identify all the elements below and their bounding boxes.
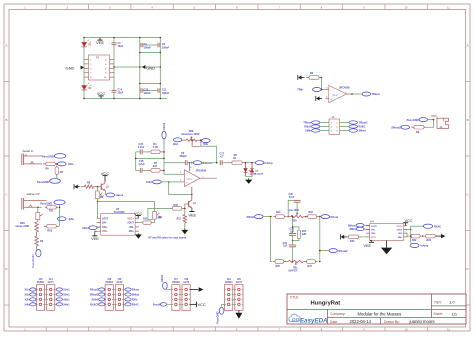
svg-text:1uF: 1uF	[283, 245, 288, 248]
svg-text:LL4148: LL4148	[255, 173, 263, 176]
trimmer R8b pot	[153, 212, 163, 220]
junction Q1 base	[97, 186, 99, 188]
svg-text:100nF: 100nF	[162, 92, 170, 95]
wire R5 to TRIn node	[322, 78, 326, 90]
resistor R8 zigzag	[81, 181, 98, 188]
wire minus input	[164, 173, 180, 175]
svg-text:X1In: X1In	[68, 162, 74, 166]
svg-text:R16: R16	[309, 211, 314, 214]
svg-text:Drawn By:: Drawn By:	[384, 320, 400, 324]
svg-text:R14: R14	[276, 211, 281, 214]
svg-text:1K: 1K	[233, 157, 236, 160]
wire left vertical	[83, 38, 85, 99]
svg-text:VEE: VEE	[363, 244, 371, 248]
wire starve node	[59, 204, 61, 226]
svg-text:1.0: 1.0	[449, 300, 455, 305]
svg-text:Modular for the Masses: Modular for the Masses	[358, 312, 402, 317]
wire ladder right vertical	[163, 152, 165, 174]
svg-text:2OUT: 2OUT	[127, 222, 134, 225]
connector J19	[225, 279, 233, 310]
svg-text:U1.1: U1.1	[187, 178, 193, 181]
junction out jack	[433, 119, 435, 121]
junction U5 rail	[97, 201, 99, 203]
svg-text:PASS4: PASS4	[225, 281, 233, 284]
svg-text:VCC-: VCC-	[371, 237, 377, 239]
junction X1In	[56, 163, 58, 165]
capacitor C2	[141, 43, 151, 50]
svg-text:VCC: VCC	[198, 302, 207, 307]
resistor R3 vertical	[55, 165, 64, 176]
svg-text:100nF: 100nF	[144, 92, 152, 95]
svg-text:R12: R12	[177, 217, 182, 220]
wire U1.2 output	[349, 93, 363, 95]
wire R28 wiper box	[191, 139, 201, 146]
wire wiper to feedback	[201, 146, 217, 162]
wire U5 left pin1	[97, 202, 99, 219]
net flag InAmp at U4	[410, 243, 429, 247]
resistor R29	[15, 220, 38, 233]
svg-text:tone 100K: tone 100K	[288, 209, 300, 212]
svg-text:R23: R23	[427, 239, 432, 242]
svg-text:RXIn2: RXIn2	[359, 126, 366, 129]
capacitor C6	[180, 152, 188, 165]
connector J18	[182, 279, 190, 310]
svg-text:RXIn2: RXIn2	[304, 126, 311, 129]
wires between J17 J18	[180, 290, 182, 305]
resistor R25	[273, 260, 286, 268]
ic U4	[366, 221, 408, 241]
junction starve pot	[37, 207, 39, 209]
svg-text:R13: R13	[143, 218, 148, 221]
company text	[330, 312, 401, 317]
svg-text:1M POT: 1M POT	[288, 270, 297, 273]
svg-text:-: -	[330, 88, 331, 92]
gnd below diodes	[245, 176, 252, 183]
gnd below R12	[181, 223, 188, 234]
connector J17	[172, 279, 180, 310]
net flag RXIn2 at J2	[304, 125, 320, 129]
LED D2	[82, 83, 92, 90]
svg-text:VCC: VCC	[97, 91, 106, 96]
net flag PassGND audio in	[42, 154, 66, 159]
wire to R22	[404, 233, 410, 236]
capacitor C14	[109, 89, 124, 95]
net flag starve	[105, 191, 123, 198]
svg-text:GND: GND	[66, 66, 75, 71]
resistor R9	[412, 125, 427, 133]
svg-text:X1In: X1In	[25, 289, 31, 292]
svg-text:Audio in: Audio in	[23, 149, 34, 153]
svg-text:RXIn2: RXIn2	[247, 215, 255, 219]
svg-text:47nF: 47nF	[289, 196, 295, 199]
svg-text:distortion 100K: distortion 100K	[181, 133, 199, 136]
wires between J19 J20	[233, 290, 235, 305]
connector J15	[105, 279, 113, 310]
transistor Q2	[185, 194, 197, 208]
svg-text:X3o1: X3o1	[173, 143, 179, 146]
wire mid branch 2	[292, 235, 294, 245]
resistor R5	[306, 72, 322, 79]
net flags left of J13	[25, 288, 36, 307]
power flag VCC at U5	[134, 212, 142, 219]
sheet text	[434, 311, 458, 316]
svg-text:10uF: 10uF	[118, 92, 124, 95]
svg-text:PassGND: PassGND	[216, 312, 220, 324]
junction D4	[251, 162, 253, 164]
gnd flag left of P1	[66, 66, 85, 71]
svg-text:RXout2: RXout2	[339, 249, 349, 253]
svg-text:HungryRat: HungryRat	[311, 300, 341, 306]
net flag RXIn2 tone	[247, 215, 263, 219]
capacitor C20	[288, 193, 300, 216]
svg-text:ACT4: ACT4	[236, 281, 243, 284]
junction U4 out	[410, 229, 412, 231]
op-amp U1.1	[180, 162, 217, 187]
wire tone input	[263, 216, 272, 218]
junction starve node	[59, 207, 61, 209]
power flag VCC	[100, 96, 102, 99]
junction ladder	[135, 151, 165, 171]
svg-text:SMout: SMout	[348, 224, 356, 227]
gnd arrow at R8	[77, 186, 80, 188]
resistor R6	[43, 162, 58, 170]
title text	[290, 295, 341, 306]
junction TRIn	[321, 77, 323, 91]
date text	[330, 319, 436, 324]
pot R30 tone	[288, 209, 306, 223]
capacitor C11	[158, 88, 170, 95]
svg-text:RXIn: RXIn	[132, 299, 138, 302]
svg-text:2IN-: 2IN-	[129, 226, 134, 229]
connector J14	[47, 278, 55, 310]
wire mid branch 3	[292, 247, 294, 262]
gnd arrow at U1.2 plus input	[319, 98, 322, 100]
svg-text:+: +	[186, 180, 188, 184]
resistor R4	[146, 143, 164, 154]
svg-text:starve CV: starve CV	[27, 192, 40, 196]
svg-text:PassGND: PassGND	[407, 118, 419, 122]
net flag TRIout at J2	[303, 121, 320, 125]
resistor R10	[148, 204, 184, 220]
resistor R26	[44, 225, 59, 233]
svg-text:X3In1: X3In1	[63, 299, 70, 302]
power flag VCC at Q1	[101, 171, 110, 182]
svg-text:X2In1: X2In1	[160, 274, 164, 282]
net flag PassGND vertical at J19	[216, 304, 225, 323]
svg-text:starve: starve	[116, 193, 124, 197]
power flag VEE at U5	[91, 231, 99, 241]
capacitor C17	[219, 152, 224, 165]
net flag SMout2 out	[391, 125, 409, 129]
svg-text:juanito moore: juanito moore	[409, 319, 436, 324]
svg-text:2IN+: 2IN+	[398, 237, 403, 239]
svg-text:R10: R10	[174, 204, 179, 207]
wire U4 out node	[404, 229, 411, 231]
power flag VCC at U4	[403, 219, 413, 226]
svg-text:100nF: 100nF	[144, 46, 152, 49]
svg-text:1uF: 1uF	[290, 231, 295, 234]
net flag PassGND starve	[40, 200, 65, 205]
resistor R6b	[222, 154, 245, 164]
svg-text:RXAC: RXAC	[434, 226, 441, 229]
svg-text:R30: R30	[292, 220, 297, 223]
resistor R12 zigzag	[177, 215, 187, 224]
svg-text:Date:: Date:	[330, 320, 338, 324]
svg-text:R11: R11	[49, 210, 54, 213]
svg-text:R24: R24	[350, 240, 355, 243]
svg-text:PassGND: PassGND	[42, 155, 54, 159]
trimmer R7 pot	[96, 187, 105, 200]
connector J20	[235, 279, 243, 310]
svg-text:SMout: SMout	[359, 130, 367, 133]
svg-text:TRIout2: TRIout2	[359, 122, 369, 125]
net flag RXout tone	[321, 215, 338, 219]
op-amp U1.2	[326, 85, 351, 102]
svg-text:TITLE:: TITLE:	[290, 295, 300, 299]
wires between J13 J14	[45, 290, 47, 305]
net flags left of J15	[90, 288, 105, 307]
net flag TRIout	[362, 92, 380, 96]
net flag distort	[187, 161, 217, 165]
audio jack J11	[437, 117, 449, 129]
junction D3	[245, 162, 247, 164]
wire ladder mid	[136, 157, 164, 159]
svg-text:1IN+: 1IN+	[371, 233, 376, 235]
resistor R11	[38, 206, 58, 213]
svg-text:InAmp: InAmp	[265, 161, 273, 165]
net flag X2In1 vertical at J17	[160, 274, 172, 289]
svg-text:2IN-: 2IN-	[398, 233, 402, 235]
capacitor C1	[109, 42, 124, 48]
rev text	[435, 300, 456, 305]
svg-text:50K: 50K	[158, 216, 163, 219]
wire ladder left vertical	[135, 152, 137, 171]
resistor R16	[306, 211, 319, 218]
junction tone a	[287, 216, 289, 218]
diode D3	[244, 163, 257, 177]
svg-text:+: +	[330, 97, 332, 101]
gnd arrow at R5	[301, 77, 305, 79]
net flag InAmp	[255, 161, 273, 165]
wire Q2 collector rail	[169, 182, 192, 195]
svg-text:Company:: Company:	[330, 312, 346, 316]
svg-text:B: B	[467, 118, 469, 122]
connector J16	[115, 279, 123, 310]
audio input jack J1	[22, 154, 42, 166]
capacitor C18	[136, 160, 147, 173]
net flag X5In	[202, 139, 211, 147]
trimmer R12	[36, 207, 43, 219]
capacitor C22	[283, 242, 297, 248]
svg-text:InAmp: InAmp	[421, 245, 429, 248]
wire VEE top rail	[84, 37, 160, 39]
resistor R2 vertical lower	[35, 232, 44, 246]
wires J2 right	[340, 123, 350, 131]
svg-text:240: 240	[153, 165, 158, 168]
net flag RXIn2 right	[349, 125, 366, 129]
svg-text:X2In: X2In	[25, 294, 31, 297]
svg-text:X4In: X4In	[25, 304, 31, 307]
capacitor C21	[289, 228, 296, 236]
svg-text:ACT1: ACT1	[48, 281, 55, 284]
easyeda logo	[289, 314, 328, 324]
wire to InAmp	[410, 230, 412, 244]
svg-text:SMout: SMout	[132, 294, 140, 297]
wire VCC bottom rail	[84, 98, 167, 100]
svg-text:R22: R22	[412, 239, 417, 242]
wires J2 left	[320, 123, 329, 131]
junction bottom mid	[292, 261, 294, 263]
gnd arrow at R24	[344, 236, 347, 238]
gnd flag right rail	[142, 65, 155, 70]
svg-text:X4In1: X4In1	[63, 304, 70, 307]
svg-text:JRC4558: JRC4558	[339, 86, 350, 89]
svg-text:VCC+: VCC+	[396, 226, 403, 228]
svg-text:RXAC: RXAC	[132, 304, 139, 307]
svg-text:10uF: 10uF	[118, 45, 124, 48]
net flags right of J16	[124, 288, 140, 307]
net flag TRIn	[297, 88, 321, 92]
wires between J15 J16	[113, 290, 115, 305]
junction tone right	[319, 216, 321, 218]
svg-text:VEE: VEE	[188, 213, 196, 217]
resistor R24	[346, 235, 366, 243]
svg-text:TRIout: TRIout	[372, 92, 380, 96]
gnd arrow right of R23	[436, 234, 445, 238]
gnd below J20	[235, 310, 242, 319]
svg-text:X2In1: X2In1	[63, 294, 70, 297]
svg-text:RXout: RXout	[132, 289, 139, 292]
junction plus input drop	[168, 181, 170, 183]
wire diode row	[246, 162, 256, 164]
svg-text:2022-04-14: 2022-04-14	[350, 319, 372, 324]
wire C1 column	[113, 38, 115, 99]
pot R31	[285, 260, 306, 272]
wire tone left vertical	[271, 217, 273, 262]
title block	[287, 294, 466, 324]
svg-text:JRC4558: JRC4558	[196, 169, 207, 172]
net flag SMIn at U4	[350, 227, 370, 231]
wire R9 to jack	[427, 120, 434, 128]
net flag SMout at J2	[349, 129, 366, 133]
svg-text:ACT3: ACT3	[183, 281, 190, 284]
svg-text:1IN-: 1IN-	[371, 230, 375, 232]
junction mid branch	[292, 216, 294, 218]
wire Q2 base node	[184, 204, 186, 215]
power flag VEE	[99, 38, 101, 41]
junction distort	[191, 162, 193, 164]
svg-text:X1In1: X1In1	[63, 289, 70, 292]
svg-text:330pF: 330pF	[180, 155, 188, 158]
wire tone right vertical	[319, 217, 321, 262]
wire GND mid rail	[114, 66, 161, 68]
svg-text:X3In: X3In	[25, 299, 31, 302]
junction output node	[216, 162, 218, 164]
wire feedback row	[164, 162, 185, 164]
junction Q2 base node	[184, 208, 186, 210]
svg-text:PassGND: PassGND	[37, 180, 49, 184]
svg-text:X1In1: X1In1	[162, 122, 166, 130]
net flag PassGND out	[407, 118, 428, 123]
net flag PassGND vertical	[31, 246, 41, 268]
svg-text:PASS2: PASS2	[106, 281, 114, 284]
svg-text:A: A	[5, 44, 7, 48]
net flag X3o1	[173, 138, 182, 146]
svg-text:-: -	[186, 173, 187, 177]
wire C10 C11 loop	[140, 67, 161, 99]
svg-text:R26: R26	[48, 229, 53, 232]
svg-text:PassN: PassN	[153, 304, 161, 307]
svg-text:REV:: REV:	[435, 300, 443, 304]
svg-text:VCC: VCC	[101, 171, 110, 176]
svg-text:X2In1: X2In1	[82, 227, 89, 230]
svg-text:starve 100K: starve 100K	[15, 225, 29, 228]
svg-text:X5In: X5In	[203, 143, 209, 146]
wire PassGND to jack	[428, 119, 434, 121]
svg-text:Sheet:: Sheet:	[434, 312, 444, 316]
junction bottom right	[319, 261, 321, 263]
wire tone mid branch	[292, 217, 294, 234]
svg-text:PASS3: PASS3	[172, 281, 180, 284]
svg-text:X1In1: X1In1	[146, 181, 153, 184]
svg-text:RXIn2: RXIn2	[92, 299, 99, 302]
junction Q2 collector	[191, 194, 193, 196]
svg-text:4.7uF: 4.7uF	[138, 163, 145, 166]
net flag RXout2	[319, 249, 348, 253]
svg-text:VCC+: VCC+	[127, 217, 134, 220]
svg-text:U1.2: U1.2	[333, 94, 339, 97]
resistor R7b	[146, 162, 164, 172]
ic U5	[97, 208, 139, 235]
resistor R23	[424, 234, 436, 242]
net flag X2In1 at U5	[82, 226, 100, 230]
svg-text:ACT2: ACT2	[116, 281, 123, 284]
svg-text:SMIn: SMIn	[305, 130, 311, 133]
svg-text:RXout: RXout	[331, 215, 339, 219]
svg-text:1OUT: 1OUT	[102, 217, 109, 220]
net flag PassN at J17	[153, 303, 172, 307]
capacitor C10	[141, 88, 151, 95]
svg-text:EasyEDA: EasyEDA	[300, 317, 328, 324]
svg-text:SMout2: SMout2	[90, 294, 99, 297]
diode D4	[250, 163, 264, 177]
junction U1.2 output	[351, 93, 353, 95]
resistor R14	[273, 211, 286, 218]
wire C2 C3 loop	[140, 38, 161, 68]
net flag X1In	[58, 162, 74, 166]
svg-text:100nF: 100nF	[162, 46, 170, 49]
svg-text:RXout2: RXout2	[90, 289, 99, 292]
connector J13	[36, 279, 44, 310]
capacitor C3	[158, 43, 170, 50]
net flag X1o1 vertical	[162, 122, 166, 152]
svg-text:2OUT: 2OUT	[397, 230, 403, 232]
resistor R21	[292, 226, 307, 241]
svg-text:VEE: VEE	[96, 40, 104, 45]
net flag SMout at U4	[348, 224, 370, 228]
net flag RXAC	[411, 224, 442, 229]
svg-text:VCC-: VCC-	[102, 230, 108, 233]
net flags right of J14	[55, 288, 70, 307]
svg-text:PASS1: PASS1	[37, 281, 45, 284]
svg-text:TRIn: TRIn	[297, 88, 303, 92]
gnd below U4	[381, 241, 392, 255]
svg-text:4.7: 4.7	[220, 155, 224, 158]
svg-text:TRIout: TRIout	[303, 122, 311, 125]
svg-text:PassGND: PassGND	[40, 201, 52, 205]
svg-text:1K: 1K	[100, 196, 103, 199]
svg-text:22R: 22R	[302, 233, 307, 236]
